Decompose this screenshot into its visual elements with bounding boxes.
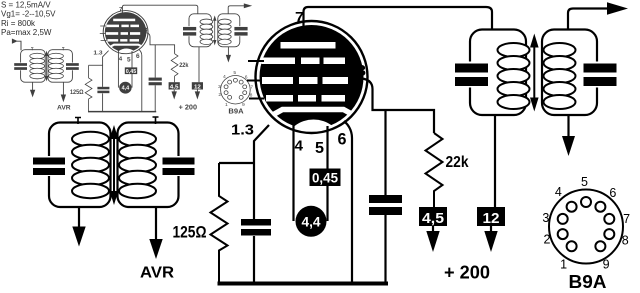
svg-text:S = 12,5mA/V: S = 12,5mA/V <box>1 1 51 10</box>
svg-text:Vg1= -2--10,5V: Vg1= -2--10,5V <box>1 10 56 19</box>
svg-text:Pa=max 2,5W: Pa=max 2,5W <box>1 28 52 37</box>
svg-text:Ri = 800k: Ri = 800k <box>1 19 36 28</box>
